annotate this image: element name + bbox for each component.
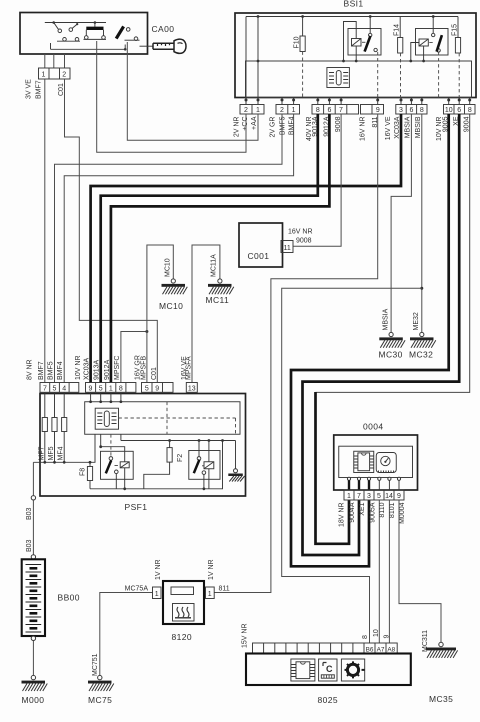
- PSF1 top connector cells: [40, 383, 197, 393]
- wire battery to M000: [32, 641, 34, 676]
- switch pole 2 of CA00 (closed contact bar): [84, 23, 107, 40]
- svg-text:F15: F15: [451, 24, 458, 36]
- svg-text:5: 5: [145, 385, 149, 392]
- switch pole 3 of CA00 (thick blade): [116, 26, 139, 40]
- svg-text:8: 8: [468, 107, 472, 114]
- fuse F14: [398, 17, 403, 54]
- 0004 connector cells: [344, 490, 404, 500]
- PSF1 wire name labels: [27, 355, 193, 380]
- svg-text:9012A: 9012A: [104, 359, 111, 380]
- wire relay R2 switch bottom: [203, 474, 205, 488]
- svg-text:6: 6: [327, 107, 331, 114]
- svg-text:MC751: MC751: [92, 653, 99, 676]
- svg-text:MC32: MC32: [409, 350, 433, 360]
- wire F15 output dashed: [458, 53, 460, 101]
- PSF1 bottom rail: [90, 441, 223, 489]
- wire 9004 to 0004 pin 1 (thick): [316, 392, 350, 544]
- wire CA00 to C01 mid: [53, 54, 55, 68]
- relay R2 in PSF1: [189, 451, 220, 480]
- IC icon in 8025: [291, 659, 315, 681]
- wire CA00 to C01 pin 1: [44, 54, 46, 68]
- svg-text:F8: F8: [79, 468, 86, 476]
- dashed internal links in PSF1 module: [119, 417, 236, 419]
- ground MC75: [88, 675, 114, 691]
- wire +CC: [97, 54, 246, 152]
- svg-text:9: 9: [397, 493, 401, 500]
- svg-text:1: 1: [208, 591, 212, 598]
- PSF1 supply rail: [45, 432, 64, 463]
- wire F14 output dashed: [400, 53, 402, 101]
- stubs from pins into module: [91, 392, 121, 401]
- wire relay R1 coil bottom: [124, 468, 126, 489]
- svg-text:MPSFB: MPSFB: [141, 356, 148, 380]
- 0004 wire name labels: [339, 502, 407, 527]
- svg-text:5: 5: [99, 385, 103, 392]
- svg-text:MBSIA: MBSIA: [405, 116, 412, 138]
- svg-text:+AA: +AA: [251, 116, 258, 130]
- ignition switch CA00 box: [20, 13, 148, 55]
- ground MC35: [426, 642, 458, 658]
- svg-text:BMF7: BMF7: [38, 361, 45, 380]
- BSI1 wire name labels: [234, 116, 471, 141]
- wire XE to 0004 pin 7 (thick): [303, 114, 460, 555]
- wire MPSFB / MC10 ground: [147, 245, 173, 383]
- BSI1 outer box: [235, 13, 476, 98]
- svg-text:6: 6: [457, 107, 461, 114]
- wire MBSIB to MC32: [421, 114, 423, 332]
- node B03 at PSF1: [31, 496, 35, 500]
- wire 9012A dashed to relay switch: [110, 434, 112, 456]
- svg-text:BMF4: BMF4: [57, 361, 64, 380]
- wire relay U1 switch stem: [369, 17, 371, 34]
- C001 pin 11: [281, 241, 293, 253]
- wire relay R2 coil stem: [208, 441, 210, 462]
- ECU 0004 box: [334, 435, 418, 490]
- svg-text:3: 3: [367, 493, 371, 500]
- svg-text:1: 1: [155, 591, 159, 598]
- svg-text:8101: 8101: [389, 502, 396, 518]
- 8025 connector strip: [253, 643, 398, 654]
- wire 8101 to 8025: [388, 500, 390, 643]
- connector box C001: [239, 223, 283, 267]
- relay U1 in BSI1: [348, 29, 381, 56]
- svg-text:B03: B03: [26, 539, 33, 552]
- fuse F15: [455, 17, 460, 54]
- wire BMF7 C01 to PSF1: [44, 79, 46, 383]
- fuse F8: [87, 462, 92, 489]
- svg-text:C001: C001: [248, 251, 270, 261]
- svg-text:BMF4: BMF4: [288, 116, 295, 135]
- svg-text:8120: 8120: [172, 632, 193, 642]
- svg-text:MC35: MC35: [429, 694, 453, 704]
- svg-text:8: 8: [119, 385, 123, 392]
- wire +AA: [127, 54, 258, 140]
- svg-text:1V NR: 1V NR: [155, 559, 162, 580]
- junction on CA00 rail: [52, 21, 55, 24]
- svg-text:2: 2: [244, 107, 248, 114]
- wire relay U1 coil left: [344, 22, 357, 62]
- switch pole 1 of CA00: [54, 23, 80, 42]
- svg-text:8: 8: [420, 107, 424, 114]
- wire XC03A (thick): [91, 114, 401, 383]
- svg-text:B03: B03: [26, 507, 33, 520]
- svg-text:5: 5: [53, 385, 57, 392]
- svg-text:M0004: M0004: [399, 502, 406, 524]
- svg-text:7: 7: [339, 107, 343, 114]
- svg-text:15V NR: 15V NR: [242, 623, 249, 648]
- svg-text:9013A: 9013A: [94, 359, 101, 380]
- svg-text:4: 4: [62, 385, 66, 392]
- svg-text:1V NR: 1V NR: [208, 559, 215, 580]
- svg-text:8V NR: 8V NR: [27, 359, 34, 380]
- gauge symbol in 0004: [376, 453, 396, 473]
- 8120 left pin 1: [153, 587, 162, 599]
- wire ground branch to 8025 B6: [282, 288, 422, 643]
- svg-text:10: 10: [445, 107, 453, 114]
- wire F10 output dashed: [302, 52, 304, 98]
- svg-text:8: 8: [316, 107, 320, 114]
- PSF1 inner module box: [85, 402, 240, 435]
- PSF1 mid rail: [121, 434, 236, 440]
- svg-text:2V NR: 2V NR: [234, 117, 241, 138]
- svg-text:7: 7: [43, 385, 47, 392]
- svg-text:14: 14: [385, 493, 393, 500]
- wire BMF5: [55, 114, 283, 383]
- wire 9013A (thick): [101, 114, 318, 383]
- key symbol line to CA00: [140, 45, 154, 47]
- IC chip symbol in 0004: [354, 451, 374, 472]
- wire MBSIA to MC30: [391, 114, 411, 332]
- ground M000: [22, 675, 48, 691]
- svg-text:2V GR: 2V GR: [270, 117, 277, 138]
- fuse F2: [144, 441, 172, 489]
- wire relay R2 coil bottom: [208, 469, 210, 489]
- wire M0004 to MC35: [399, 500, 441, 642]
- relay R1 in PSF1: [101, 451, 134, 479]
- svg-text:MF7: MF7: [38, 446, 45, 460]
- svg-text:MC311: MC311: [422, 630, 429, 652]
- svg-text:2: 2: [280, 107, 284, 114]
- thermostat icon in 8025: [319, 659, 337, 681]
- PSF1 box: [40, 394, 246, 497]
- svg-text:C01: C01: [151, 367, 158, 380]
- svg-text:1: 1: [42, 72, 46, 79]
- wire 9004 upper run: [316, 114, 470, 392]
- wire MPSFC to ground junction: [121, 332, 147, 383]
- svg-text:MBSIA: MBSIA: [382, 308, 389, 330]
- glow plug unit 8120: [163, 581, 204, 624]
- svg-text:8110: 8110: [379, 502, 386, 517]
- svg-text:1: 1: [292, 107, 296, 114]
- internal ground in PSF1: [228, 441, 244, 482]
- svg-text:MC30: MC30: [379, 350, 403, 360]
- svg-text:MF4: MF4: [58, 446, 65, 460]
- wire relay R1 switch bottom: [115, 474, 117, 489]
- fuse MF5: [52, 418, 57, 432]
- wire 8110 to 8025: [378, 500, 380, 643]
- svg-text:9005A: 9005A: [369, 502, 376, 523]
- BSI1 bottom connector cells: [240, 105, 475, 115]
- ground MC10: [162, 279, 188, 294]
- svg-text:MC75: MC75: [88, 695, 112, 705]
- svg-text:XC03A: XC03A: [84, 357, 91, 380]
- wire 9005 to 0004 pin 3 (thick): [291, 114, 449, 566]
- svg-text:C: C: [326, 664, 333, 674]
- wire relay U1 coil bottom: [355, 46, 357, 61]
- 0004 pin terminals: [347, 477, 400, 490]
- svg-text:M000: M000: [22, 695, 45, 705]
- svg-text:CA00: CA00: [152, 24, 175, 34]
- fuse F10: [300, 15, 305, 51]
- svg-text:BMF5: BMF5: [48, 361, 55, 380]
- CA00 internal supply rail: [45, 22, 106, 24]
- wire relay U2 output dashed: [438, 52, 440, 97]
- svg-text:9: 9: [383, 635, 390, 639]
- svg-text:BSI1: BSI1: [344, 0, 364, 9]
- svg-text:16V NR: 16V NR: [288, 229, 313, 236]
- BSI1 pin stubs: [245, 98, 472, 105]
- wire relay U1 output dashed to pin 9: [377, 52, 379, 98]
- svg-text:MC10: MC10: [159, 301, 183, 311]
- svg-text:F10: F10: [294, 36, 301, 48]
- svg-text:3V VE: 3V VE: [26, 79, 33, 99]
- svg-text:7: 7: [357, 493, 361, 500]
- svg-text:MC75A: MC75A: [125, 586, 149, 593]
- connector C01: [39, 68, 71, 79]
- wire pin1a +AA inside BSI1: [257, 17, 259, 105]
- wire MPSFA to MC11 ground: [192, 245, 220, 383]
- svg-text:MBSIB: MBSIB: [415, 116, 422, 138]
- wire 9013A to relay coil: [101, 434, 125, 462]
- wire CA00 +CC stem: [96, 41, 98, 54]
- svg-text:10V NR: 10V NR: [75, 355, 82, 380]
- svg-text:6: 6: [409, 107, 413, 114]
- svg-text:MF5: MF5: [48, 446, 55, 460]
- control unit 8025 box: [246, 654, 411, 686]
- BSI1 inner bus box: [246, 61, 472, 98]
- svg-text:8025: 8025: [318, 695, 339, 705]
- svg-text:1: 1: [109, 385, 113, 392]
- svg-text:BB00: BB00: [58, 593, 80, 603]
- svg-text:1: 1: [256, 107, 260, 114]
- wire C01 net to PSF1 pin 9: [65, 79, 158, 383]
- svg-text:3: 3: [399, 107, 403, 114]
- svg-text:11: 11: [284, 245, 291, 252]
- junction on CA00 rail: [94, 21, 97, 24]
- svg-text:9: 9: [376, 107, 380, 114]
- ground MC32: [410, 332, 436, 347]
- wire CA00 to C01 pin 2: [64, 54, 66, 68]
- svg-text:10: 10: [373, 629, 380, 637]
- battery BB00: [22, 555, 45, 641]
- electronic module symbol in BSI1: [327, 68, 350, 88]
- wire 9008 to C001: [293, 114, 341, 246]
- fan icon in 8025: [341, 659, 364, 681]
- svg-text:811: 811: [219, 586, 230, 593]
- svg-text:1: 1: [347, 493, 351, 500]
- svg-text:5: 5: [377, 493, 381, 500]
- node MBSIB junction: [420, 287, 423, 290]
- 8120 right pin 1: [206, 587, 215, 599]
- node +AA on rail: [257, 15, 260, 18]
- svg-text:9: 9: [89, 385, 93, 392]
- BSI1 top rail: [246, 16, 458, 18]
- electronic module symbol in PSF1: [95, 408, 118, 429]
- svg-text:ME32: ME32: [413, 312, 420, 330]
- ground MC30: [379, 332, 405, 347]
- svg-text:BMF5: BMF5: [279, 116, 286, 135]
- wire BMF4: [64, 114, 293, 383]
- wire relay U2 coil bottom: [423, 46, 425, 61]
- svg-text:MC11: MC11: [206, 295, 230, 305]
- svg-text:PSF1: PSF1: [125, 502, 148, 512]
- svg-text:8: 8: [362, 635, 369, 639]
- wire MC751 to 8120: [100, 593, 153, 676]
- svg-text:XE1: XE1: [359, 502, 366, 515]
- wire relay U2 coil left: [411, 43, 419, 62]
- svg-text:MPSFA: MPSFA: [186, 356, 193, 380]
- key symbol: [153, 39, 186, 53]
- fuse MF4: [62, 418, 67, 432]
- wire B03 to battery: [32, 462, 34, 554]
- svg-text:9008: 9008: [296, 238, 312, 245]
- svg-text:16V NR: 16V NR: [360, 117, 367, 142]
- svg-text:F14: F14: [394, 24, 401, 36]
- CA00 internal bottom link: [51, 48, 126, 50]
- 0004 inner frame: [339, 446, 413, 477]
- wire CA00 +AA stem: [126, 42, 128, 54]
- wire pin2a +CC inside BSI1: [245, 17, 247, 105]
- svg-text:MC10: MC10: [165, 258, 172, 277]
- wire relay U2 switch stem: [432, 17, 434, 34]
- svg-text:C01: C01: [58, 83, 65, 96]
- svg-text:13: 13: [188, 385, 196, 392]
- wire relay R2 switch stem: [198, 441, 200, 457]
- svg-text:18V NR: 18V NR: [339, 503, 346, 528]
- svg-text:F2: F2: [177, 454, 184, 462]
- PSF1 maxi fuse feeds: [45, 392, 64, 417]
- svg-text:BMF7: BMF7: [36, 80, 43, 99]
- wire 811 to 8120: [214, 114, 378, 593]
- wire 9012A (thick): [111, 114, 330, 383]
- svg-text:16V VE: 16V VE: [385, 116, 392, 140]
- svg-text:2: 2: [62, 72, 66, 79]
- svg-text:9004A: 9004A: [349, 502, 356, 523]
- node MPSFB junction: [145, 330, 148, 333]
- svg-text:0004: 0004: [363, 422, 384, 432]
- svg-text:MPSFC: MPSFC: [114, 356, 121, 381]
- ground MC11: [208, 279, 234, 294]
- relay U2 in BSI1: [416, 29, 449, 56]
- svg-text:9: 9: [155, 385, 159, 392]
- fuse MF7: [42, 418, 47, 432]
- svg-text:MC11A: MC11A: [211, 254, 218, 277]
